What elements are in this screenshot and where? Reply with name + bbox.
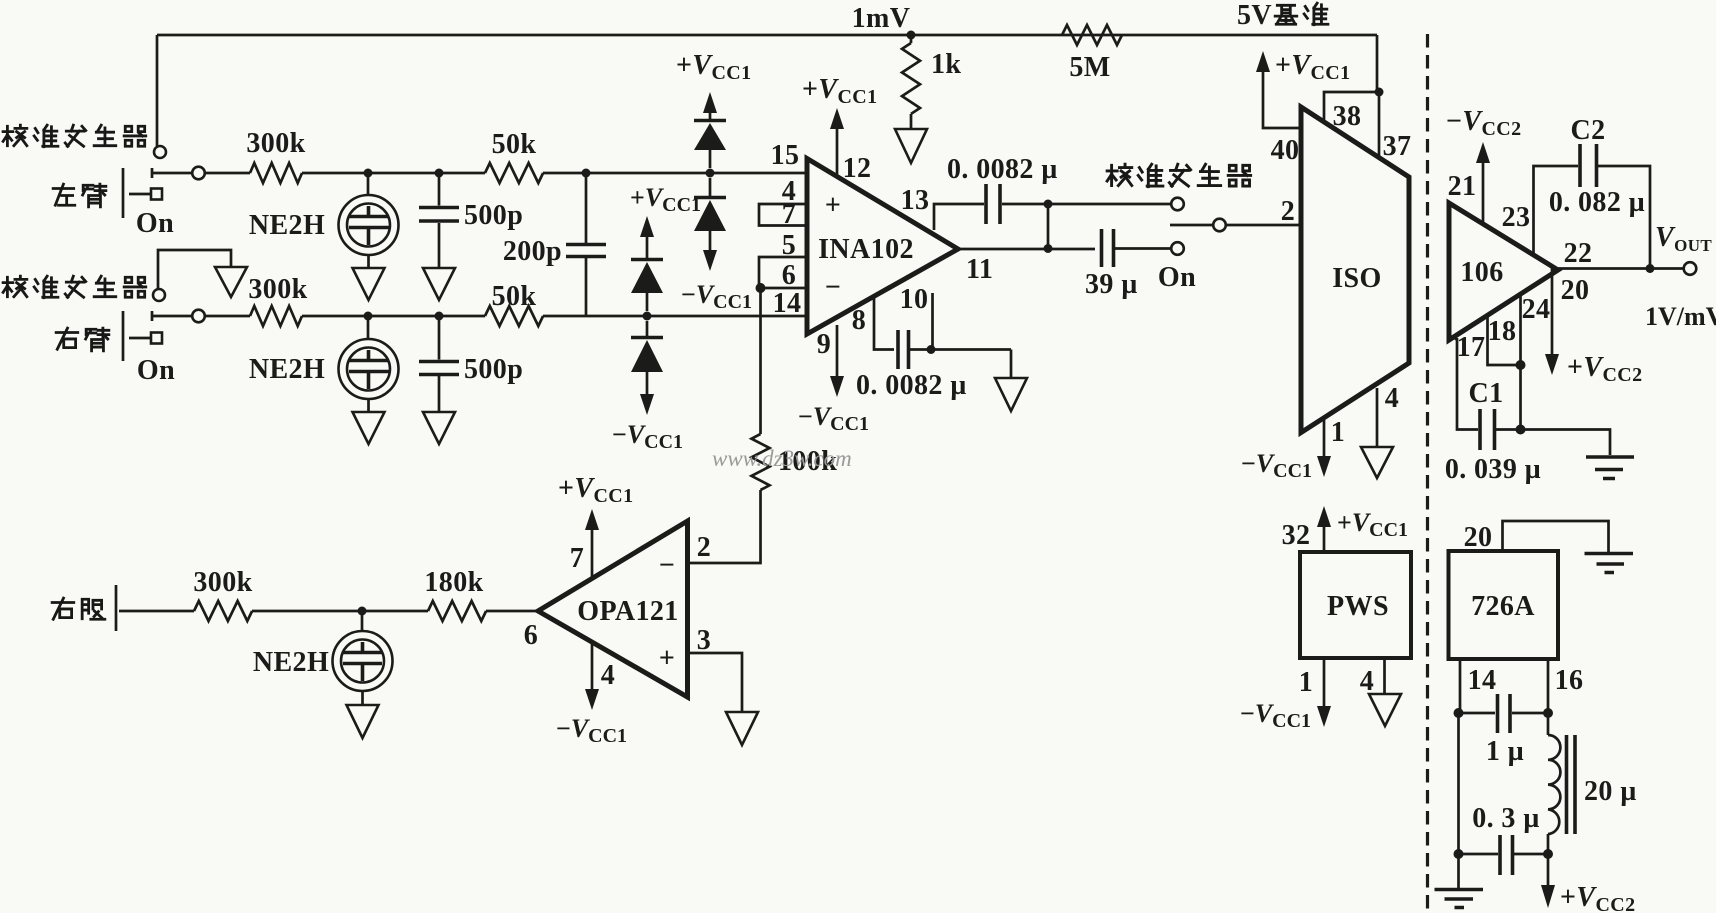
node bracket to gain resistor [756,283,766,293]
node row1 500p [435,169,444,178]
node output mid [1044,244,1053,253]
pin 11 output wire [958,249,1095,285]
capacitor C2 0.082u [1549,115,1650,266]
node row2 500p [435,312,444,321]
pin 14 stub (726A) [1460,659,1496,710]
svg-text:8: 8 [852,305,866,336]
pin 14 label [773,288,802,319]
wire to ground arrow [1010,350,1013,379]
resistor 180k [424,567,486,621]
terminal right leg [116,585,194,631]
wire to 300k [205,172,250,175]
capacitor 0.0082u (top output) [947,154,1171,224]
label +VCC1 (clamp A) [676,50,752,84]
pin 5/6 bracket [759,230,807,291]
svg-text:INA102: INA102 [818,234,914,265]
svg-text:50k: 50k [492,129,537,160]
svg-text:0. 0082 µ: 0. 0082 µ [947,154,1058,185]
pin 4 ground (ISO) [1361,383,1399,478]
pin 15 label [771,140,800,171]
svg-text:300k: 300k [246,128,305,159]
svg-text:21: 21 [1448,171,1477,202]
pin 16 stub (726A) [1548,659,1583,710]
wire top rail drop to ISO [1376,35,1379,92]
pin 20 supply +VCC2 (106) [1545,269,1643,387]
diode D1 (to +VCC1) [694,121,726,169]
svg-text:1 µ: 1 µ [1486,736,1524,767]
node pin18/24 [1516,360,1526,370]
pin 4 ground (PWS) [1360,658,1401,726]
ground (C1 net) [1586,457,1634,479]
svg-text:−: − [825,272,841,303]
svg-text:14: 14 [773,288,802,319]
pin 37 label [1383,131,1412,162]
svg-text:NE2H: NE2H [249,210,325,241]
svg-text:40: 40 [1271,135,1300,166]
wire row1 300k to 50k [302,172,485,175]
wire top 5V reference rail [157,34,1377,37]
svg-text:On: On [136,208,174,239]
arrow down -VCC1 clamp A [703,250,717,271]
svg-text:C1: C1 [1468,378,1503,409]
pin 18 stub [1488,314,1519,365]
node output 106 [1646,264,1655,273]
pin 2 label [1281,196,1295,227]
label right leg [52,598,105,619]
svg-text:13: 13 [901,185,930,216]
wire left arm row start [152,168,192,178]
pin 21 supply -VCC2 [1446,106,1522,224]
wire row1 50k to INA pin15 [543,172,807,175]
pin 17 stub [1453,332,1485,430]
node pin10/cap [927,345,936,354]
svg-text:24: 24 [1522,294,1551,325]
svg-text:www.dz3w.com: www.dz3w.com [712,446,852,471]
capacitor 0.3u [1459,803,1549,875]
svg-text:12: 12 [843,153,872,184]
resistor 5M [1062,25,1122,83]
resistor 300k (right leg) [193,567,252,621]
capacitor 500p (row1) [419,173,523,268]
neon lamp NE2H (row1) [249,173,399,268]
diode D2 (to -VCC1) [694,178,726,250]
svg-text:2: 2 [697,532,711,563]
svg-text:50k: 50k [492,281,537,312]
terminal circle right arm [192,310,205,323]
capacitor 200p [503,173,606,316]
svg-text:20 µ: 20 µ [1584,776,1637,807]
switch On (right arm) [123,311,175,386]
op-amp U2 OPA121 [538,521,688,697]
svg-text:9: 9 [817,329,831,360]
wire row2 300k to 50k [302,315,485,318]
svg-text:4: 4 [1385,383,1399,414]
svg-text:17: 17 [1457,332,1486,363]
node 5V ref / pin38 [1375,88,1384,97]
node row1 200p [582,169,591,178]
node top rail / 1k [907,31,916,40]
pin 22 output wire [1558,238,1683,269]
label -VCC1 clamp B [612,420,683,453]
pin 40 supply +VCC1 [1256,50,1351,166]
pin 32 supply +VCC1 (PWS) [1282,506,1408,552]
svg-text:NE2H: NE2H [249,354,325,385]
svg-text:10: 10 [900,284,929,315]
terminal circle output bottom [1171,242,1184,255]
pin 10 stub [900,284,933,350]
pin 24 stub [1521,294,1551,430]
svg-text:106: 106 [1460,257,1503,288]
capacitor C1 0.039u [1445,378,1610,485]
svg-text:300k: 300k [193,567,252,598]
wire node link vertical [1047,204,1050,249]
node row1 NE2H [364,169,373,178]
label 5V reference [1237,0,1328,31]
pin 7 supply +VCC1 [558,473,634,578]
svg-text:PWS: PWS [1327,591,1389,622]
svg-text:39 µ: 39 µ [1085,269,1138,300]
resistor 300k (right arm) [248,274,307,326]
svg-text:15: 15 [771,140,800,171]
label 1mV [852,3,911,34]
node right leg NE2H [358,607,367,616]
wire node down to pin 37 [1378,92,1381,156]
svg-text:On: On [1158,262,1196,293]
pin 38 bracket [1324,92,1379,132]
label calibration generator (mid) [1107,164,1251,186]
wire 300k to 180k [252,610,428,613]
switch pole to ISO [1158,219,1301,293]
ground arrow pin 3 [726,712,758,745]
inductor 20u [1548,713,1637,854]
svg-text:22: 22 [1564,238,1593,269]
pin 1 supply -VCC1 (ISO) [1241,417,1345,482]
svg-text:On: On [137,355,175,386]
ground arrow below 1k [895,129,927,163]
terminal circle output top [1171,198,1184,211]
pin 4 supply -VCC1 [556,641,627,747]
pin 4/7 bracket [759,176,807,230]
label left arm [53,184,106,207]
node C1 / pin24 [1516,425,1526,435]
ground arrow below NE2H right leg [347,705,379,738]
svg-text:0. 039 µ: 0. 039 µ [1445,454,1541,485]
svg-text:500p: 500p [464,354,523,385]
ground (726A pin20) [1585,554,1634,573]
neon lamp NE2H (right leg) [253,611,393,705]
diode D4 (to -VCC1) [631,321,663,394]
diode D3 (to +VCC1) [631,260,663,312]
svg-text:180k: 180k [424,567,483,598]
op-amp U3 106 [1449,203,1558,340]
svg-text:20: 20 [1464,522,1493,553]
ground arrow below 500p row2 [423,412,455,444]
resistor 100k [752,434,838,490]
isolation amp ISO [1301,107,1409,433]
svg-text:6: 6 [782,260,796,291]
svg-text:0. 3 µ: 0. 3 µ [1472,803,1540,834]
label calibration generator (top left) [3,125,146,147]
pin 2 label [697,532,711,563]
pin 20 wire to ground (726A) [1464,521,1609,553]
svg-text:NE2H: NE2H [253,647,329,678]
wire gain node to 100k [759,288,762,434]
svg-text:300k: 300k [248,274,307,305]
label +VCC1 (clamp B) [630,183,701,216]
svg-text:5M: 5M [1069,52,1110,83]
svg-text:726A: 726A [1471,591,1535,622]
terminal circle left arm [192,167,205,180]
dc-dc converter 726A [1449,551,1559,659]
arrow down -VCC1 clamp B [640,394,654,415]
capacitor 39u [1085,229,1171,300]
wire left leg down [1457,713,1460,854]
svg-text:4: 4 [1360,666,1374,697]
pin 1 supply -VCC1 (PWS) [1240,658,1331,732]
svg-text:C2: C2 [1570,115,1605,146]
pin 12 supply +VCC1 [802,74,878,184]
wire row2 50k to INA pin14 [543,315,807,318]
arrow down +VCC2 (726A) [1541,854,1636,913]
svg-text:1mV: 1mV [852,3,911,34]
svg-text:5: 5 [782,230,796,261]
isolation barrier dashed [1426,34,1429,913]
svg-text:1k: 1k [931,49,961,80]
node bottom left [1454,849,1464,859]
neon lamp NE2H (row2) [249,316,399,412]
resistor 50k (row2) [485,281,543,326]
terminal circle VOUT [1684,262,1697,275]
pin 9 supply -VCC1 [798,325,869,435]
svg-text:11: 11 [966,254,993,285]
svg-text:ISO: ISO [1332,263,1381,294]
terminal circle calibration generator 2 [153,289,165,301]
svg-text:1V/mV: 1V/mV [1645,302,1716,331]
ground arrow (0.0082u net) [995,378,1027,411]
pin 8 stub [852,296,894,350]
arrow up +VCC1 clamp A [703,92,717,120]
wire to 300k row2 [205,315,250,318]
node row2 NE2H [364,312,373,321]
ground (726A bottom) [1435,854,1484,908]
wire cal-gen2 up and over [158,250,231,289]
svg-text:1: 1 [1331,417,1345,448]
svg-text:14: 14 [1468,665,1497,696]
pin 23 stub [1502,166,1578,255]
arrow up +VCC1 clamp B [640,216,654,258]
wire right arm row start [152,311,192,321]
svg-text:200p: 200p [503,236,562,267]
label right arm [56,328,109,351]
label -VCC1 clamp A [681,280,752,313]
node bottom right [1543,849,1553,859]
svg-text:2: 2 [1281,196,1295,227]
svg-text:−: − [659,550,675,581]
pin 13 riser [901,185,984,230]
ground arrow below NE2H row1 [353,268,385,300]
label 1V/mV [1645,302,1716,331]
svg-text:7: 7 [570,543,584,574]
node output top [1044,200,1053,209]
wire 100k to OPA pin2 [688,490,761,563]
svg-text:1: 1 [1299,667,1313,698]
svg-text:+: + [659,643,675,674]
svg-text:+: + [825,190,841,221]
op-amp U1 INA102 [807,159,958,335]
label calibration generator (second, left) [3,276,146,298]
ground arrow below NE2H row2 [353,412,385,444]
svg-text:38: 38 [1333,101,1362,132]
svg-text:7: 7 [782,199,796,230]
svg-text:0. 0082 µ: 0. 0082 µ [856,370,967,401]
svg-text:20: 20 [1561,275,1590,306]
power supply PWS [1300,552,1411,658]
node row1 clamp column [706,169,715,178]
node pin16 top [1543,708,1553,718]
pin 3 wire to ground arrow [688,625,743,712]
ground arrow below 500p row1 [423,268,455,300]
svg-text:23: 23 [1502,202,1531,233]
svg-text:6: 6 [524,620,538,651]
svg-text:OPA121: OPA121 [577,596,678,627]
pin 6 label [524,620,538,651]
wire left drop to calibration terminal [156,35,159,146]
resistor 300k (left arm) [246,128,305,183]
svg-text:16: 16 [1555,665,1584,696]
wire 180k to OPA [486,610,538,613]
svg-text:3: 3 [697,625,711,656]
svg-text:18: 18 [1488,316,1517,347]
capacitor 1u [1459,694,1549,767]
capacitor 500p (row2) [419,316,523,412]
svg-text:5V: 5V [1237,0,1272,31]
node row2 clamp column [643,312,652,321]
svg-text:4: 4 [601,660,615,691]
capacitor 0.0082u (lower) [856,330,1011,401]
resistor 50k (row1) [485,129,543,183]
watermark [712,446,852,471]
node pin14 top [1454,708,1464,718]
svg-text:0. 082 µ: 0. 082 µ [1549,187,1645,218]
arrow open down (cal-gen2) [215,267,247,297]
svg-text:37: 37 [1383,131,1412,162]
svg-text:32: 32 [1282,520,1311,551]
switch On (left arm) [123,168,174,239]
terminal circle calibration generator top [154,146,166,158]
svg-text:500p: 500p [464,200,523,231]
resistor 1k [902,35,961,129]
label VOUT [1655,222,1712,255]
